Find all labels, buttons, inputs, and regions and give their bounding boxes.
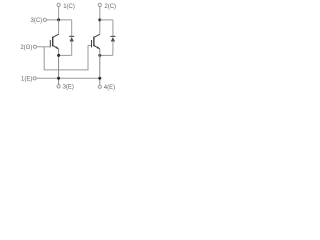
node: left collector junction	[57, 18, 60, 21]
wire: right emitter down	[99, 49, 101, 85]
background	[0, 0, 142, 98]
wire: 2(C) stub down	[99, 7, 101, 20]
node: right emitter bus junction	[98, 77, 101, 80]
wire: collector branch left y=19.9	[46, 19, 71, 21]
wire: D1 anode to emitter	[59, 54, 72, 56]
Q1 collector diagonal	[53, 34, 59, 37]
D1 cathode bar	[69, 35, 74, 37]
wire: emitter bus y=78.3	[36, 77, 100, 79]
transistor Q1 (left IGBT)	[50, 34, 58, 49]
Q2 emitter diagonal	[94, 45, 100, 49]
wire: right collector branch to D2	[100, 19, 113, 21]
Q1 body bar	[52, 37, 54, 47]
Q2 body bar	[93, 37, 95, 47]
node: left emitter-diode junction	[57, 54, 60, 57]
svg-text:3(E): 3(E)	[63, 85, 74, 91]
Q2 emitter arrow	[97, 46, 100, 48]
D2 anode wire down	[112, 42, 114, 56]
node: right emitter-diode junction	[98, 54, 101, 57]
wire: left emitter down	[58, 49, 60, 85]
wire: D2 anode to emitter	[100, 54, 113, 56]
D1 triangle	[70, 37, 74, 42]
diode D2 (right)	[100, 20, 116, 56]
svg-text:1(C): 1(C)	[63, 4, 75, 10]
svg-text:2(G): 2(G)	[20, 45, 32, 51]
wire: gate lead from 2(G)	[37, 46, 51, 48]
D2 cathode wire down	[112, 20, 114, 36]
diode D1 (left)	[59, 20, 75, 56]
Q2 collector diagonal	[94, 34, 100, 37]
wire: gate drop x=44.2	[44, 45, 88, 70]
D1 cathode wire down from collector branch	[71, 20, 73, 36]
D2 triangle	[111, 37, 115, 42]
Q2 gate bar	[91, 40, 93, 47]
node: left emitter bus junction	[57, 77, 60, 80]
svg-text:1(E): 1(E)	[21, 77, 32, 83]
terminal 1(C) circle	[57, 3, 60, 6]
D2 cathode bar	[110, 35, 115, 37]
transistor Q2 (right IGBT)	[92, 34, 100, 49]
wire: left collector down to Q1	[58, 20, 60, 35]
svg-text:3(C): 3(C)	[31, 18, 43, 24]
wire: right collector down to Q2	[99, 20, 101, 35]
Q1 emitter diagonal	[53, 45, 59, 49]
terminal 2(G) circle	[33, 45, 36, 48]
terminal 3(E) circle	[57, 85, 60, 88]
terminal 4(E) circle	[98, 85, 101, 88]
Q1 gate bar	[49, 40, 51, 47]
terminal 2(C) circle	[98, 3, 101, 6]
Q1 emitter arrow	[56, 46, 59, 48]
node: right collector junction	[98, 18, 101, 21]
terminal 1(E) circle	[33, 77, 36, 80]
terminal 3(C) circle	[43, 18, 46, 21]
svg-text:2(C): 2(C)	[104, 4, 116, 10]
D1 anode wire down	[71, 42, 73, 56]
wire: 1(C) stub down	[58, 7, 60, 20]
svg-text:4(E): 4(E)	[104, 85, 115, 91]
wire: right gate lead	[88, 44, 92, 46]
